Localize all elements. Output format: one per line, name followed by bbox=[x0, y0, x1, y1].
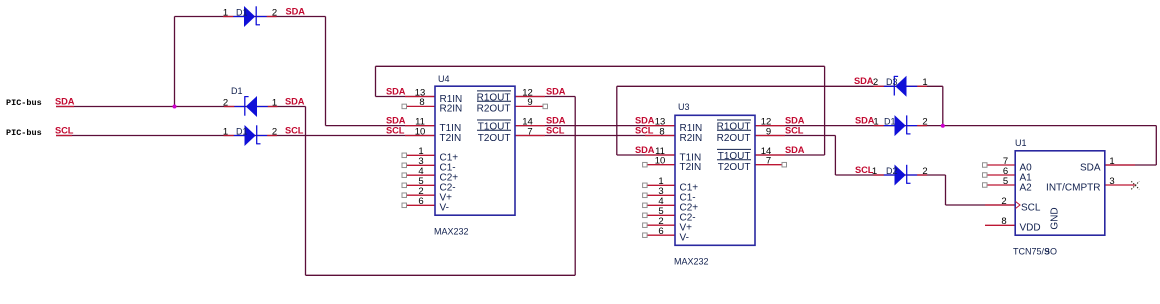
svg-text:10: 10 bbox=[655, 156, 666, 167]
svg-text:SDA: SDA bbox=[386, 115, 406, 125]
svg-text:8: 8 bbox=[1001, 216, 1006, 227]
wire top rail bbox=[376, 65, 825, 67]
svg-text:T2IN: T2IN bbox=[440, 133, 462, 144]
pin stub U4 bottom 2 bbox=[407, 164, 436, 166]
svg-text:D1: D1 bbox=[231, 86, 243, 96]
svg-text:SDA: SDA bbox=[546, 86, 566, 96]
svg-text:U3: U3 bbox=[678, 102, 690, 112]
pin stub U4 bottom 5 bbox=[407, 194, 436, 196]
unconnected pin square U4 pin2 bbox=[402, 193, 407, 198]
wire U3 R2OUT out bbox=[755, 135, 835, 137]
unconnected pin square U4 pin3 bbox=[402, 163, 407, 168]
svg-text:INT/CMPTR: INT/CMPTR bbox=[1046, 182, 1100, 193]
svg-text:5: 5 bbox=[1003, 176, 1008, 187]
svg-text:SCL: SCL bbox=[635, 125, 654, 135]
svg-text:2: 2 bbox=[272, 126, 277, 137]
pin stub PIC SDA label point bbox=[56, 106, 74, 108]
unconnected pin square U4 pin8 bbox=[402, 104, 407, 109]
wire SCL drop bbox=[834, 136, 836, 176]
svg-text:9: 9 bbox=[1045, 246, 1050, 256]
pin stub U3 bottom 3 bbox=[647, 204, 676, 206]
svg-text:PIC-bus: PIC-bus bbox=[6, 98, 42, 108]
pin stub U4 R1OUT bbox=[515, 96, 545, 98]
pin stub U1 A2 bbox=[987, 184, 1015, 186]
pin stub U4 R1IN bbox=[405, 96, 435, 98]
unconnected pin square U3 pin4 bbox=[643, 203, 648, 208]
pin stub U3 T1IN bbox=[645, 154, 675, 156]
svg-text:1: 1 bbox=[922, 77, 927, 88]
svg-text:9: 9 bbox=[527, 97, 532, 108]
pin stub U1 SCL bbox=[985, 204, 1015, 206]
svg-text:2: 2 bbox=[272, 7, 277, 18]
junction node SDA right bbox=[941, 124, 945, 128]
svg-text:SDA: SDA bbox=[55, 96, 75, 106]
IC U1 TCN75 bbox=[1015, 151, 1105, 235]
pin stub U1 A0 bbox=[987, 164, 1015, 166]
diode D2 right bbox=[884, 165, 918, 186]
unconnected pin square U4 pin6 bbox=[402, 203, 407, 208]
svg-text:D1: D1 bbox=[236, 7, 248, 17]
svg-text:8: 8 bbox=[419, 97, 424, 108]
unconnected pin square U4 pin9 bbox=[543, 104, 548, 109]
wire left riser bbox=[174, 17, 176, 107]
wire D3 row left drop bbox=[616, 86, 618, 155]
svg-text:6: 6 bbox=[658, 226, 663, 237]
U1 clock chevron bbox=[1016, 202, 1021, 209]
unconnected pin square U3 pin3 bbox=[643, 193, 648, 198]
unconnected pin square U1 pin7 bbox=[983, 163, 988, 168]
svg-text:1: 1 bbox=[872, 166, 877, 177]
svg-text:T1OUT: T1OUT bbox=[718, 151, 751, 162]
svg-text:8: 8 bbox=[659, 126, 664, 137]
wire R1IN riser bbox=[375, 66, 377, 96]
svg-text:2: 2 bbox=[922, 116, 927, 127]
svg-text:1: 1 bbox=[223, 7, 228, 18]
pin stub U3 R2IN bbox=[645, 135, 675, 137]
wire U3 T1IN feed bbox=[617, 154, 675, 156]
pin stub U3 bottom 1 bbox=[647, 184, 676, 186]
unconnected pin square U3 pin6 bbox=[643, 233, 648, 238]
svg-text:T1OUT: T1OUT bbox=[478, 122, 511, 133]
svg-text:7: 7 bbox=[766, 156, 771, 167]
unconnected pin square U3 pin1 bbox=[643, 183, 648, 188]
svg-text:U1: U1 bbox=[1015, 138, 1027, 148]
pin stub U4 bottom 1 bbox=[407, 154, 436, 156]
unconnected pin square U3 pin5 bbox=[643, 213, 648, 218]
svg-text:SDA: SDA bbox=[386, 86, 406, 96]
svg-text:1: 1 bbox=[223, 126, 228, 137]
svg-text:10: 10 bbox=[415, 126, 426, 137]
wire T1IN feed bbox=[326, 125, 436, 127]
svg-text:R2IN: R2IN bbox=[680, 133, 703, 144]
pin stub U4 bottom 3 bbox=[407, 174, 436, 176]
wire R1OUT drop bbox=[574, 97, 576, 276]
pin stub U3 bottom 6 bbox=[647, 234, 676, 236]
svg-text:SDA: SDA bbox=[1080, 162, 1101, 173]
pin stub U1 SDA bbox=[1105, 164, 1135, 166]
svg-text:SCL: SCL bbox=[785, 125, 804, 135]
svg-text:SCL: SCL bbox=[55, 125, 74, 135]
unconnected pin square U1 pin6 bbox=[983, 173, 988, 178]
svg-text:SCL: SCL bbox=[1021, 202, 1041, 213]
unconnected pin square U3 pin2 bbox=[643, 223, 648, 228]
svg-text:9: 9 bbox=[766, 126, 771, 137]
wire bottom rail bbox=[306, 274, 576, 276]
svg-text:R2OUT: R2OUT bbox=[477, 104, 511, 115]
svg-text:SCL: SCL bbox=[386, 125, 405, 135]
wire top SDA row bbox=[175, 16, 326, 18]
pin stub U3 bottom 5 bbox=[647, 224, 676, 226]
wire R1OUT out segment bbox=[515, 96, 575, 98]
wire U1 SCL feed bbox=[946, 204, 1016, 206]
svg-text:2: 2 bbox=[223, 97, 228, 108]
svg-text:R2OUT: R2OUT bbox=[717, 133, 751, 144]
svg-text:GND: GND bbox=[1050, 207, 1061, 229]
junction node PIC SDA bbox=[173, 105, 177, 109]
svg-text:D3: D3 bbox=[886, 77, 898, 87]
diode D3 bbox=[884, 76, 918, 97]
svg-text:T2IN: T2IN bbox=[680, 162, 702, 173]
wire PIC-bus SCL row bbox=[56, 135, 435, 137]
svg-text:R1OUT: R1OUT bbox=[477, 92, 511, 103]
wire U1 SDA riser bbox=[1155, 126, 1157, 165]
svg-text:2: 2 bbox=[873, 77, 878, 88]
svg-text:R2IN: R2IN bbox=[440, 104, 463, 115]
unconnected pin square U1 pin5 bbox=[983, 183, 988, 188]
svg-text:T2OUT: T2OUT bbox=[718, 162, 751, 173]
pin stub U4 R2IN bbox=[407, 105, 436, 107]
wire D2 row bbox=[835, 174, 945, 176]
svg-text:1: 1 bbox=[1109, 156, 1114, 167]
svg-text:SDA: SDA bbox=[286, 6, 306, 16]
pin stub U3 R1OUT bbox=[755, 125, 785, 127]
no-connect X on U1 pin 3 bbox=[1131, 181, 1139, 189]
svg-text:1: 1 bbox=[873, 116, 878, 127]
wire U3 T1OUT out bbox=[755, 154, 825, 156]
wire U4 T1OUT to U3 R1IN bbox=[515, 125, 675, 127]
svg-text:2: 2 bbox=[922, 166, 927, 177]
pin stub U1 VDD bbox=[985, 224, 1015, 226]
pin stub U3 bottom 4 bbox=[647, 214, 676, 216]
unconnected pin square U4 pin4 bbox=[402, 173, 407, 178]
pin stub U4 T1OUT bbox=[515, 125, 545, 127]
wire D3 out drop bbox=[942, 86, 944, 125]
wire PIC-bus SDA row bbox=[56, 106, 306, 108]
svg-text:A2: A2 bbox=[1020, 182, 1033, 193]
diode D1 top bbox=[233, 6, 267, 27]
pin stub U4 T2OUT bbox=[515, 135, 545, 137]
pin stub U3 T2OUT bbox=[755, 164, 782, 166]
svg-text:V-: V- bbox=[440, 203, 449, 214]
svg-text:D1: D1 bbox=[884, 116, 896, 126]
svg-text:VDD: VDD bbox=[1020, 223, 1041, 234]
IC U4 MAX232 bbox=[435, 86, 515, 215]
svg-text:SDA: SDA bbox=[854, 76, 874, 86]
unconnected pin square U3 pin10 bbox=[643, 162, 648, 167]
IC U3 MAX232 bbox=[675, 115, 755, 245]
pin stub U4 bottom 4 bbox=[407, 184, 436, 186]
wire SDA drop to bottom rail bbox=[305, 107, 307, 276]
svg-text:SDA: SDA bbox=[855, 115, 875, 125]
svg-text:R1OUT: R1OUT bbox=[717, 122, 751, 133]
wire U3 R1OUT to U1 SDA net bbox=[755, 125, 1156, 127]
svg-text:2: 2 bbox=[1001, 196, 1006, 207]
unconnected pin square U3 pin7 bbox=[782, 162, 787, 167]
svg-text:MAX232: MAX232 bbox=[674, 256, 709, 266]
pin stub U3 T2IN bbox=[647, 164, 676, 166]
svg-text:SDA: SDA bbox=[635, 145, 655, 155]
svg-text:TCN75/SO: TCN75/SO bbox=[1013, 246, 1057, 256]
pin stub U4 T1IN bbox=[405, 125, 435, 127]
pin stub U1 A1 bbox=[987, 174, 1015, 176]
svg-text:7: 7 bbox=[527, 126, 532, 137]
pin stub U1 INT/CMPTR bbox=[1105, 184, 1135, 186]
wire R1IN feed bbox=[376, 96, 436, 98]
wire top SDA drop bbox=[325, 17, 327, 126]
diode D1 right bbox=[884, 115, 918, 136]
svg-text:SDA: SDA bbox=[285, 96, 305, 106]
svg-text:MAX232: MAX232 bbox=[434, 226, 469, 236]
diode D1 middle bbox=[234, 96, 267, 117]
svg-text:V-: V- bbox=[680, 233, 689, 244]
svg-text:U4: U4 bbox=[438, 74, 450, 84]
wire D2 drop bbox=[945, 175, 947, 205]
svg-text:SDA: SDA bbox=[785, 115, 805, 125]
pin stub U4 T2IN bbox=[405, 135, 435, 137]
diode D2 on SCL row bbox=[234, 125, 268, 146]
svg-text:SDA: SDA bbox=[635, 115, 655, 125]
svg-text:D1: D1 bbox=[236, 126, 248, 136]
svg-text:SCL: SCL bbox=[285, 125, 304, 135]
pin stub U3 T1OUT bbox=[755, 154, 785, 156]
unconnected pin square U4 pin5 bbox=[402, 183, 407, 188]
svg-text:6: 6 bbox=[418, 196, 423, 207]
svg-text:PIC-bus: PIC-bus bbox=[6, 128, 42, 138]
wire D3 row bbox=[617, 85, 943, 87]
pin stub PIC SCL label point bbox=[56, 135, 72, 137]
svg-text:D2: D2 bbox=[886, 166, 898, 176]
pin stub U4 bottom 6 bbox=[407, 204, 436, 206]
svg-text:3: 3 bbox=[1109, 176, 1114, 187]
svg-text:T2OUT: T2OUT bbox=[478, 133, 511, 144]
wire U4 T2OUT to U3 R2IN bbox=[515, 135, 675, 137]
wire top rail right drop bbox=[824, 66, 826, 155]
svg-text:1: 1 bbox=[272, 97, 277, 108]
pin stub U3 bottom 2 bbox=[647, 194, 676, 196]
svg-text:SDA: SDA bbox=[546, 115, 566, 125]
svg-text:SCL: SCL bbox=[546, 125, 565, 135]
svg-text:SDA: SDA bbox=[785, 145, 805, 155]
wire U1 SDA out bbox=[1105, 164, 1156, 166]
pin stub U3 R2OUT bbox=[755, 135, 785, 137]
pin stub U4 R2OUT bbox=[515, 105, 543, 107]
pin stub U3 R1IN bbox=[645, 125, 675, 127]
unconnected pin square U4 pin1 bbox=[402, 153, 407, 158]
